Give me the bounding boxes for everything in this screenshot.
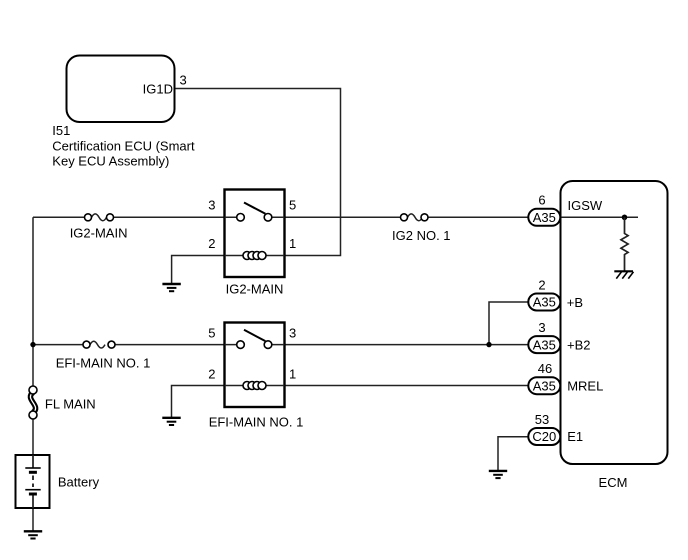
svg-text:1: 1: [289, 367, 296, 382]
svg-text:EFI-MAIN NO. 1: EFI-MAIN NO. 1: [209, 415, 304, 430]
svg-text:3: 3: [208, 198, 215, 213]
svg-text:1: 1: [289, 236, 296, 251]
svg-text:ECM: ECM: [599, 475, 628, 490]
svg-text:IG2-MAIN: IG2-MAIN: [226, 282, 284, 297]
svg-text:5: 5: [208, 326, 215, 341]
svg-text:2: 2: [208, 367, 215, 382]
svg-text:46: 46: [538, 361, 552, 376]
svg-text:+B: +B: [567, 295, 583, 310]
svg-text:3: 3: [538, 320, 545, 335]
svg-text:6: 6: [538, 193, 545, 208]
svg-text:53: 53: [535, 412, 549, 427]
svg-text:Key ECU Assembly): Key ECU Assembly): [52, 154, 169, 169]
svg-text:A35: A35: [533, 337, 556, 352]
svg-text:A35: A35: [533, 378, 556, 393]
svg-text:3: 3: [289, 326, 296, 341]
svg-text:IG2-MAIN: IG2-MAIN: [70, 226, 128, 241]
svg-text:IG2 NO. 1: IG2 NO. 1: [392, 228, 451, 243]
svg-text:5: 5: [289, 198, 296, 213]
svg-text:2: 2: [538, 278, 545, 293]
svg-text:FL MAIN: FL MAIN: [45, 396, 96, 411]
svg-text:+B2: +B2: [567, 338, 591, 353]
svg-text:A35: A35: [533, 295, 556, 310]
svg-text:IGSW: IGSW: [568, 198, 603, 213]
svg-text:2: 2: [208, 236, 215, 251]
svg-text:MREL: MREL: [567, 379, 603, 394]
svg-text:E1: E1: [567, 429, 583, 444]
svg-text:Battery: Battery: [58, 475, 100, 490]
svg-text:3: 3: [180, 73, 187, 88]
svg-text:IG1D: IG1D: [143, 82, 173, 97]
svg-text:EFI-MAIN NO. 1: EFI-MAIN NO. 1: [56, 355, 151, 370]
svg-text:C20: C20: [532, 429, 556, 444]
svg-text:Certification ECU (Smart: Certification ECU (Smart: [52, 139, 195, 154]
svg-text:I51: I51: [52, 123, 70, 138]
svg-text:A35: A35: [533, 210, 556, 225]
